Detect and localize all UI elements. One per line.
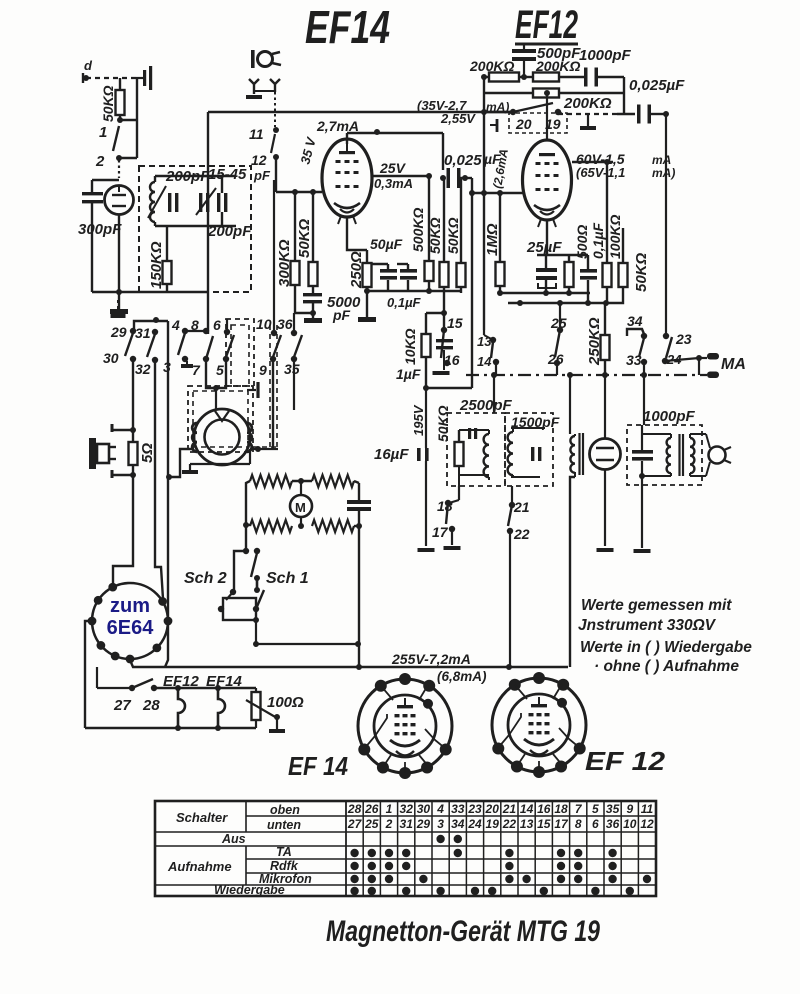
svg-text:27: 27 — [113, 697, 131, 714]
svg-text:18: 18 — [437, 498, 453, 514]
label 2.6mA rot — [490, 148, 511, 190]
wire bridge left — [243, 481, 250, 551]
table label TA — [276, 845, 292, 859]
wire anode V2 — [347, 129, 443, 170]
svg-text:200KΩ: 200KΩ — [535, 58, 580, 74]
svg-text:50KΩ: 50KΩ — [427, 217, 443, 254]
svg-text:23: 23 — [675, 331, 692, 347]
wire main rail — [208, 111, 513, 113]
label 1500pF — [511, 414, 560, 430]
svg-text:8: 8 — [575, 817, 582, 831]
wire 255V rail — [130, 660, 568, 670]
svg-text:25: 25 — [550, 315, 567, 331]
resistor 50K d — [607, 228, 650, 303]
label 35V rot — [297, 135, 319, 166]
wire motor right down — [358, 526, 360, 667]
svg-text:50KΩ: 50KΩ — [100, 85, 116, 122]
svg-text:50KΩ: 50KΩ — [435, 405, 451, 442]
capacitor motor — [347, 481, 371, 529]
table outer — [155, 801, 656, 896]
wire pin down dotted — [274, 92, 276, 127]
svg-text:25V: 25V — [379, 160, 407, 176]
svg-text:36: 36 — [606, 817, 620, 831]
head ring — [192, 409, 252, 465]
speaker — [89, 438, 116, 469]
box tank dashed — [139, 166, 251, 292]
wire bridge top mid — [292, 478, 312, 484]
label 0.3mA — [374, 176, 413, 191]
wire corner right — [624, 77, 685, 114]
svg-text:0,1µF: 0,1µF — [387, 295, 422, 310]
wire MA link — [698, 358, 700, 375]
svg-text:14: 14 — [477, 354, 492, 369]
label EF12 heater — [163, 673, 200, 690]
table label oben — [270, 803, 300, 817]
svg-text:21: 21 — [502, 802, 517, 816]
svg-text:18: 18 — [554, 802, 568, 816]
capacitor 1000b — [632, 450, 653, 553]
svg-text:500KΩ: 500KΩ — [410, 208, 426, 252]
circle zum 6E64 — [92, 583, 168, 659]
svg-text:250KΩ: 250KΩ — [586, 317, 603, 366]
svg-text:6: 6 — [213, 317, 221, 333]
resistor 10K — [402, 313, 431, 391]
svg-text:(65V-1,1: (65V-1,1 — [576, 165, 625, 180]
switch 13-14 — [477, 334, 499, 413]
svg-text:33: 33 — [626, 352, 642, 368]
capacitor 5000pF — [295, 286, 361, 323]
terminal MA upper — [699, 353, 719, 360]
capacitor osc small — [468, 428, 477, 439]
svg-text:32: 32 — [135, 361, 151, 377]
resistor 50K c — [445, 178, 466, 293]
transformer T1 — [570, 433, 583, 477]
svg-text:50KΩ: 50KΩ — [445, 217, 461, 254]
switch 19-20 — [509, 103, 567, 133]
svg-text:Aus: Aus — [221, 832, 246, 846]
svg-text:M: M — [295, 500, 306, 515]
wire screen V2 — [372, 173, 432, 179]
wire trafo down — [570, 477, 575, 667]
box gang dashed — [226, 319, 254, 386]
switch 10-9 — [256, 180, 281, 449]
label 2.7mA — [316, 118, 359, 134]
switch 1-2 arm — [113, 126, 119, 151]
node 1 — [99, 117, 123, 141]
resistor 200K r2 — [533, 58, 585, 82]
wire output dashed — [558, 113, 635, 115]
svg-text:35 V: 35 V — [297, 135, 319, 166]
svg-text:13: 13 — [477, 334, 492, 349]
table grid — [155, 801, 656, 896]
svg-text:3: 3 — [437, 817, 444, 831]
label 6E64 — [107, 617, 155, 639]
switch 6-5 — [213, 317, 234, 378]
resistor bridge top-left — [250, 475, 292, 487]
note line2 — [578, 617, 717, 634]
resistor bridge bot-right — [312, 520, 354, 532]
svg-text:150KΩ: 150KΩ — [148, 241, 165, 289]
svg-text:35: 35 — [284, 361, 300, 377]
capacitor 16uF — [374, 446, 435, 552]
wire box right leads — [221, 176, 223, 226]
svg-text:21: 21 — [513, 499, 530, 515]
svg-text:2,7mA: 2,7mA — [316, 118, 359, 134]
svg-text:17: 17 — [432, 524, 449, 540]
wire k-rail — [498, 292, 590, 294]
svg-text:36: 36 — [277, 316, 293, 332]
wire anode V3 — [572, 159, 613, 263]
wire 27 stub — [97, 667, 132, 688]
trimmer 15-25pF — [196, 166, 252, 240]
wire 1500 links — [511, 428, 545, 447]
svg-text:29: 29 — [110, 324, 127, 340]
svg-text:12: 12 — [640, 817, 654, 831]
wire dashed input — [86, 77, 136, 79]
terminal MA lower — [707, 356, 746, 378]
wire grid V2 — [276, 159, 322, 192]
wire sch to motor — [256, 641, 361, 647]
switch Sch2 — [226, 548, 260, 600]
note line1 — [581, 597, 732, 614]
wire anode tap — [426, 310, 447, 316]
svg-text:30: 30 — [417, 802, 431, 816]
svg-text:300pF: 300pF — [78, 221, 122, 238]
svg-text:Sch 2: Sch 2 — [184, 570, 227, 587]
wire cathode V2 — [347, 217, 367, 250]
box 2500 dashed — [447, 413, 505, 486]
box head dashed — [188, 386, 253, 452]
table label unten — [267, 818, 301, 832]
svg-text:16µF: 16µF — [374, 446, 409, 463]
label Sch2 — [184, 570, 227, 587]
svg-text:32: 32 — [400, 802, 414, 816]
wire 1000 feed — [642, 375, 644, 450]
svg-text:15-45: 15-45 — [208, 166, 247, 183]
resistor 50K a — [296, 189, 318, 286]
svg-text:16: 16 — [537, 802, 551, 816]
svg-text:4: 4 — [436, 802, 444, 816]
box 1000 dashed — [627, 408, 702, 485]
svg-text:25µF: 25µF — [526, 239, 562, 256]
label 35V-2.7 — [417, 98, 509, 126]
svg-text:200pF: 200pF — [207, 223, 252, 240]
resistor osc 50K — [455, 430, 464, 475]
switch 31-32 — [135, 325, 158, 377]
switch 36-35 — [277, 313, 302, 410]
wire osc links — [459, 430, 489, 500]
svg-text:Sch 1: Sch 1 — [266, 570, 309, 587]
capacitor 50uF — [370, 236, 403, 291]
label 60V — [576, 151, 675, 180]
wire EF12 box left — [481, 74, 487, 330]
svg-text:100Ω: 100Ω — [267, 694, 304, 711]
table label Aus — [221, 832, 246, 846]
resistor 300K — [276, 189, 300, 313]
svg-text:11: 11 — [249, 126, 264, 142]
resistor 50K input — [100, 78, 125, 122]
switch 11-12 arm — [271, 134, 275, 153]
switch block box — [218, 590, 264, 647]
svg-text:EF14: EF14 — [305, 1, 390, 53]
wire tank top — [155, 175, 236, 177]
svg-text:mA): mA) — [652, 166, 675, 180]
table label Wiedergabe — [214, 883, 285, 897]
svg-text:8: 8 — [191, 317, 199, 333]
antenna connector — [136, 66, 152, 90]
tube V2 EF14 — [322, 139, 372, 224]
coil osc 2 — [508, 428, 513, 478]
wire grid V3 — [469, 190, 523, 196]
svg-text:26: 26 — [547, 351, 564, 367]
wire heater top — [154, 685, 256, 691]
svg-text:EF12: EF12 — [163, 673, 200, 690]
tube V3 EF12 — [523, 140, 572, 227]
label Sch1 — [266, 570, 309, 587]
switch 25-26 — [547, 300, 567, 375]
svg-text:4: 4 — [171, 317, 180, 333]
table label Schalter — [176, 810, 228, 825]
svg-text:10KΩ: 10KΩ — [402, 328, 418, 365]
capacitor 200pF tank — [165, 168, 210, 212]
wire 7-5 U — [206, 360, 226, 410]
svg-text:26: 26 — [364, 802, 379, 816]
capacitor 0.025uF out — [637, 105, 669, 124]
svg-text:pF: pF — [253, 168, 271, 183]
wire speaker drop — [113, 359, 133, 586]
resistor bridge top-right — [312, 475, 354, 487]
svg-text:EF12: EF12 — [515, 3, 578, 47]
label socket EF12 — [585, 746, 666, 776]
shield 9 dashed — [253, 325, 277, 447]
wire rail EF12 — [484, 111, 513, 113]
wire 195V line — [411, 388, 472, 448]
svg-text:1: 1 — [99, 124, 107, 141]
svg-text:Werte gemessen mit: Werte gemessen mit — [581, 597, 732, 614]
resistor 100ohm — [246, 688, 304, 733]
svg-text:255V-7,2mA: 255V-7,2mA — [391, 651, 471, 667]
capacitor osc 1500 — [511, 430, 541, 477]
svg-text:5: 5 — [216, 362, 224, 378]
svg-text:14: 14 — [520, 802, 534, 816]
svg-text:0,3mA: 0,3mA — [374, 176, 413, 191]
label zum — [110, 595, 150, 617]
resistor 100K — [603, 215, 624, 303]
node 2 — [95, 153, 122, 170]
switch 18-17 — [432, 498, 461, 550]
svg-text:34: 34 — [627, 313, 643, 329]
resistor 200K r3 — [484, 89, 624, 113]
box 1500 dashed — [505, 413, 553, 486]
svg-text:15: 15 — [537, 817, 551, 831]
wire under head — [182, 446, 278, 474]
svg-text:2: 2 — [95, 153, 105, 170]
capacitor 500pF — [512, 44, 581, 77]
label 255V — [391, 651, 487, 684]
table label Mikrofon — [259, 872, 312, 886]
switch 7-8 — [191, 317, 213, 378]
svg-text:22: 22 — [513, 526, 530, 542]
switch 29-30 — [103, 324, 136, 366]
wire cathode V3 — [537, 221, 588, 255]
wire head left out — [166, 449, 194, 480]
motor M — [290, 481, 312, 529]
wire trunk A — [155, 360, 163, 599]
wire phones link — [639, 434, 710, 479]
svg-text:zum: zum — [110, 595, 150, 617]
capacitor 0.1uF k — [580, 222, 606, 306]
svg-text:11: 11 — [641, 802, 654, 816]
svg-text:9: 9 — [259, 362, 267, 378]
svg-text:34: 34 — [451, 817, 465, 831]
socket EF14 — [358, 673, 452, 779]
svg-text:6: 6 — [592, 817, 599, 831]
node 12 — [251, 152, 279, 183]
svg-text:250Ω: 250Ω — [348, 251, 365, 289]
svg-text:Rdfk: Rdfk — [270, 859, 299, 873]
label 25V — [379, 160, 407, 176]
tube V3 top lead — [544, 90, 550, 140]
svg-text:27: 27 — [347, 817, 363, 831]
resistor 500K — [410, 176, 434, 294]
svg-text:0,025µF: 0,025µF — [629, 77, 685, 94]
svg-text:pF: pF — [332, 307, 351, 323]
wire left frame vertical — [207, 112, 209, 334]
svg-text:1MΩ: 1MΩ — [484, 223, 501, 256]
table dots — [350, 835, 651, 895]
title — [326, 915, 600, 948]
svg-text:16: 16 — [444, 352, 460, 368]
resistor 250ohm — [348, 250, 376, 322]
wire node2 down dotted — [118, 160, 120, 178]
svg-text:5: 5 — [592, 802, 599, 816]
svg-text:1µF: 1µF — [396, 366, 421, 382]
ground sw29 — [111, 300, 126, 318]
svg-text:15: 15 — [447, 315, 463, 331]
svg-text:25: 25 — [364, 817, 379, 831]
svg-text:50KΩ: 50KΩ — [633, 252, 650, 292]
microphone jack — [251, 50, 281, 68]
resistor 200K r1 — [469, 58, 533, 82]
input terminal — [83, 73, 89, 83]
wire coupling down — [471, 178, 473, 388]
resistor 150K — [148, 226, 172, 292]
circle pins — [88, 583, 173, 664]
wire trafo top — [567, 372, 573, 434]
svg-text:Werte in ( ) Wiedergabe: Werte in ( ) Wiedergabe — [580, 639, 752, 656]
svg-text:· ohne ( ) Aufnahme: · ohne ( ) Aufnahme — [594, 658, 739, 675]
svg-text:5Ω: 5Ω — [139, 443, 156, 463]
svg-text:20: 20 — [485, 802, 500, 816]
svg-text:300KΩ: 300KΩ — [276, 239, 293, 287]
resistor 50K b — [427, 178, 449, 330]
svg-text:unten: unten — [267, 818, 301, 832]
switch 34-33 — [626, 313, 647, 378]
label EF12 heading — [515, 3, 578, 47]
svg-text:13: 13 — [520, 817, 534, 831]
node 11 — [249, 126, 279, 142]
svg-text:28: 28 — [142, 697, 160, 714]
svg-text:195V: 195V — [411, 404, 426, 436]
svg-text:0,1µF: 0,1µF — [590, 222, 606, 259]
switch 3-4 — [163, 317, 206, 375]
grid stopper bar — [490, 119, 497, 132]
svg-text:9: 9 — [626, 802, 633, 816]
resistor 250K — [586, 303, 610, 378]
svg-text:Jnstrument 330ΩV: Jnstrument 330ΩV — [578, 617, 717, 634]
svg-text:19: 19 — [486, 817, 500, 831]
wire heater bottom — [85, 720, 256, 731]
svg-text:Aufnahme: Aufnahme — [167, 859, 232, 874]
capacitor 1uF — [396, 339, 453, 382]
trafo2 core — [680, 434, 684, 476]
label 2500pF — [459, 397, 513, 414]
wire node1 right — [120, 119, 137, 121]
resistor bridge bot-left — [250, 520, 292, 532]
svg-text:17: 17 — [554, 817, 569, 831]
resistor 1M — [484, 193, 505, 296]
heater EF14 — [218, 688, 225, 727]
label socket EF14 — [288, 751, 348, 781]
wire top sockets — [508, 640, 510, 667]
wire switch top bus — [134, 317, 168, 331]
svg-text:6E64: 6E64 — [107, 617, 155, 639]
svg-text:EF 14: EF 14 — [288, 751, 348, 781]
svg-text:31: 31 — [135, 325, 151, 341]
table label Aufnahme — [167, 859, 232, 874]
svg-text:EF 12: EF 12 — [585, 746, 666, 776]
switch 21-22 — [507, 478, 530, 667]
svg-text:29: 29 — [416, 817, 431, 831]
tube V1 input diode — [105, 185, 134, 215]
svg-text:mA: mA — [652, 153, 671, 167]
coil out L — [667, 434, 671, 476]
switch 27-28 — [113, 679, 160, 714]
svg-text:1000pF: 1000pF — [579, 47, 632, 64]
label EF14 heading — [305, 1, 390, 53]
resistor 500ohm — [565, 225, 591, 296]
socket EF12 — [492, 672, 586, 778]
tube V4 rect — [590, 375, 621, 552]
svg-text:50µF: 50µF — [370, 236, 403, 252]
svg-text:Magnetton-Gerät MTG 19: Magnetton-Gerät MTG 19 — [326, 915, 600, 948]
switch 15-16 — [441, 315, 463, 368]
wire circle left — [85, 621, 92, 728]
svg-text:23: 23 — [467, 802, 482, 816]
svg-text:TA: TA — [276, 845, 292, 859]
svg-text:33: 33 — [451, 802, 465, 816]
svg-text:2500pF: 2500pF — [459, 397, 513, 414]
svg-text:50KΩ: 50KΩ — [296, 218, 313, 258]
svg-text:20: 20 — [515, 116, 532, 132]
resistor 5ohm — [129, 427, 157, 475]
svg-text:22: 22 — [502, 817, 517, 831]
wire 13 feed — [484, 330, 496, 343]
svg-text:30: 30 — [103, 350, 119, 366]
svg-text:MA: MA — [721, 356, 746, 373]
svg-text:0,025: 0,025 — [444, 152, 482, 169]
svg-text:1: 1 — [386, 802, 393, 816]
capacitor 25uF — [526, 239, 562, 296]
wire cathode row — [92, 291, 208, 293]
svg-text:EF14: EF14 — [206, 673, 243, 690]
note line3 — [580, 639, 752, 656]
table label Rdfk — [270, 859, 299, 873]
svg-text:2: 2 — [385, 817, 393, 831]
node d label — [84, 58, 93, 73]
svg-text:35: 35 — [606, 802, 620, 816]
coil osc 1 — [484, 430, 489, 480]
